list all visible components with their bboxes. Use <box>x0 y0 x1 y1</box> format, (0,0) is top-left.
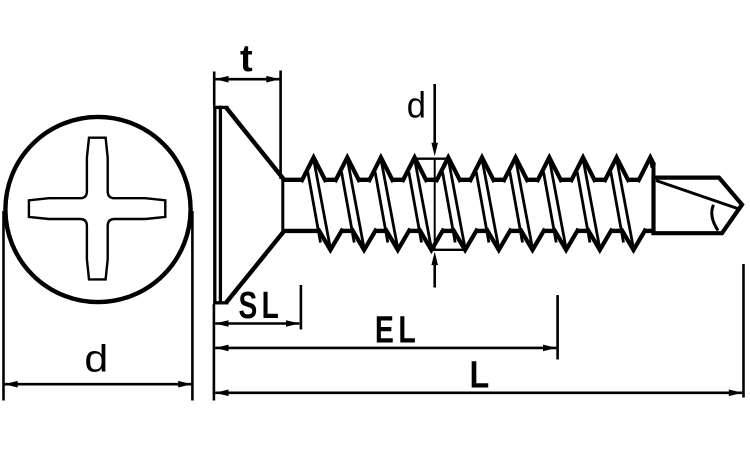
svg-text:t: t <box>240 38 253 80</box>
svg-text:SL: SL <box>239 285 284 327</box>
svg-text:d: d <box>407 86 426 126</box>
svg-text:d: d <box>84 337 108 380</box>
svg-text:EL: EL <box>375 310 420 352</box>
svg-text:L: L <box>469 354 489 396</box>
